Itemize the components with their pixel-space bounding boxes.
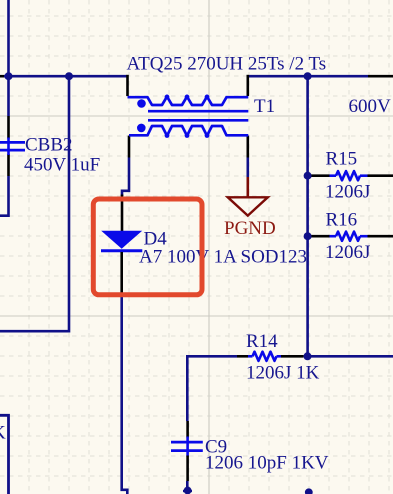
wire from D4 to bottom bbox=[122, 295, 128, 494]
capacitor CBB2 bbox=[0, 116, 100, 176]
junction dot R16 bbox=[304, 232, 312, 240]
wire R14 right bbox=[308, 355, 393, 358]
svg-text:CBB2: CBB2 bbox=[25, 135, 73, 156]
power port PGND bbox=[224, 197, 276, 239]
wire C9 bottom bbox=[186, 481, 189, 494]
wire top horizontal right bbox=[249, 75, 393, 78]
svg-text:1206J: 1206J bbox=[325, 242, 370, 263]
junction dot A bbox=[5, 72, 13, 80]
wire second vertical bbox=[0, 76, 69, 331]
transformer label bbox=[127, 54, 327, 75]
wire R14 left bbox=[187, 356, 237, 421]
svg-text:R14: R14 bbox=[246, 331, 278, 352]
svg-text:1206J: 1206J bbox=[325, 182, 370, 203]
svg-text:600V: 600V bbox=[349, 96, 392, 117]
wire left vertical bbox=[0, 0, 9, 216]
svg-text:ATQ25 270UH 25Ts /2 Ts: ATQ25 270UH 25Ts /2 Ts bbox=[127, 54, 327, 75]
junction dot bottom right bbox=[305, 488, 313, 494]
svg-text:450V 1uF: 450V 1uF bbox=[24, 155, 100, 176]
wire from T1 lower-right pin bbox=[247, 158, 250, 198]
diode D4 bbox=[101, 229, 307, 296]
junction dot B bbox=[65, 72, 73, 80]
resistor R15 bbox=[309, 149, 393, 203]
transformer T1 bbox=[128, 75, 276, 158]
svg-text:R16: R16 bbox=[326, 210, 358, 231]
wire from T1 lower-left pin to D4 bbox=[122, 158, 130, 232]
svg-text:R15: R15 bbox=[326, 149, 358, 170]
resistor R14 bbox=[237, 331, 320, 384]
resistor R16 bbox=[309, 210, 393, 264]
svg-text:K: K bbox=[0, 423, 6, 444]
svg-text:1206J 1K: 1206J 1K bbox=[246, 363, 320, 384]
partial net label K bbox=[0, 423, 6, 444]
junction dot top right bbox=[304, 72, 312, 80]
highlight box around D4 bbox=[93, 199, 202, 295]
svg-text:T1: T1 bbox=[254, 96, 275, 117]
wire right vertical bbox=[306, 76, 309, 356]
junction dot R14 bbox=[304, 352, 312, 360]
svg-text:1206 10pF 1KV: 1206 10pF 1KV bbox=[205, 453, 329, 474]
junction dot R15 bbox=[304, 172, 312, 180]
capacitor C9 bbox=[171, 421, 329, 481]
junction dot C9 bottom bbox=[183, 487, 192, 494]
net label 600V bbox=[349, 96, 392, 117]
wire bottom left stub bbox=[0, 415, 9, 494]
wire top horizontal left bbox=[0, 75, 127, 78]
svg-text:A7 100V 1A SOD123: A7 100V 1A SOD123 bbox=[139, 247, 307, 268]
svg-text:PGND: PGND bbox=[224, 218, 276, 239]
